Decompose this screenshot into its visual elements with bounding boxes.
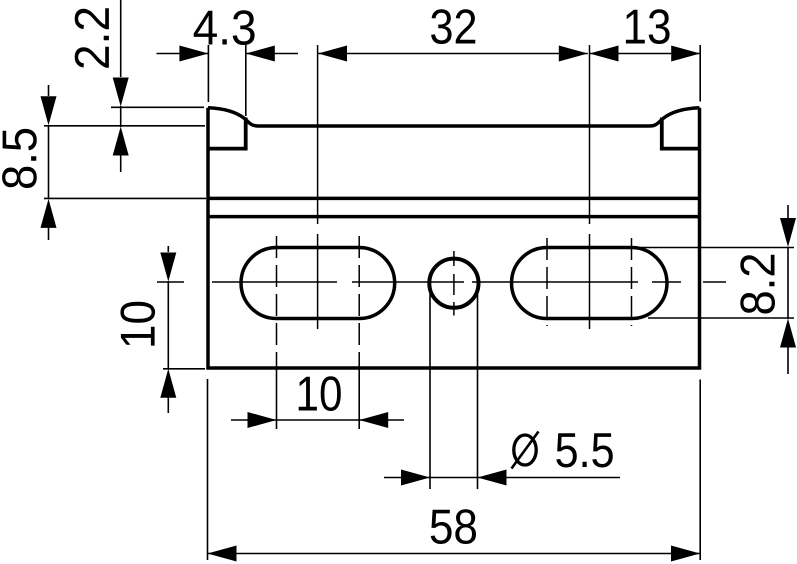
vertical center line of right slot / 32-13 extension xyxy=(589,45,591,329)
dimension 8.5 line and outside arrows xyxy=(48,85,50,96)
dimension 4.3 line and outside arrows xyxy=(157,53,209,55)
dimension 2.2 line and outside arrows xyxy=(120,0,122,77)
dimension text 10 bottom xyxy=(299,376,341,411)
dimension text 8.2 (rotated) xyxy=(740,255,775,314)
dimension 10 (bottom, slot centers) line and outside arrows xyxy=(231,419,359,421)
lower horizontal step line across part xyxy=(208,215,700,219)
dimension text 2.2 (rotated) xyxy=(75,8,109,67)
left slot (obround 10 x 8.2) xyxy=(241,248,395,319)
dimension text 13 xyxy=(626,9,670,44)
extension line tab top (2.2 upper ref) xyxy=(111,106,204,108)
dimension 10 (left) line and outside arrows xyxy=(167,246,169,252)
dimension text diameter symbol xyxy=(512,432,539,469)
extension line circle left (dia 5.5) xyxy=(429,294,431,489)
dimension text 58 xyxy=(431,509,476,544)
dimension text 10 left (rotated) xyxy=(120,302,155,346)
left tab hook inner edge xyxy=(209,118,246,149)
dimension 13 line and inside arrows xyxy=(590,53,701,55)
right slot (obround) xyxy=(512,248,667,319)
left slot arc-center dashed line (right) xyxy=(358,236,360,368)
extension line circle right (dia 5.5) xyxy=(477,294,479,489)
extension line surface level (2.2 lower / 8.5 upper ref) xyxy=(44,125,205,127)
vertical center line of circle xyxy=(453,251,455,316)
left slot arc-center dashed line (left) xyxy=(276,236,278,368)
dimension text 4.3 xyxy=(194,10,255,45)
extension line bottom edge (10 lower ref) xyxy=(163,368,205,370)
extension line 8.2 bottom xyxy=(648,317,794,319)
dimension 32 line and inside arrows xyxy=(318,53,588,55)
extension line 13 right xyxy=(699,45,701,102)
extension line step level (8.5 lower ref) xyxy=(44,197,206,199)
extension line 4.3 left xyxy=(207,45,209,102)
dimension text 8.5 (rotated) xyxy=(2,129,37,188)
extension line 4.3 right xyxy=(245,45,247,116)
part outline: top profile with DIN-rail tabs xyxy=(208,108,700,126)
center hole circle diameter 5.5 xyxy=(429,259,478,308)
dimension dia 5.5 line and outside arrows xyxy=(384,477,478,479)
dimension text 32 xyxy=(431,9,475,44)
right slot arc-center dashed line (right) xyxy=(631,238,633,326)
right tab hook inner edge xyxy=(662,118,699,149)
extension line 58 left xyxy=(207,379,209,560)
upper horizontal step line across part xyxy=(208,197,700,201)
part outline: left edge, bottom edge, right edge xyxy=(208,108,700,368)
vertical center line of left slot xyxy=(317,45,319,329)
dimension text 5.5 xyxy=(556,433,613,467)
dimension 8.2 line and outside arrows xyxy=(787,205,789,218)
dimension 58 line and inside arrows xyxy=(208,553,701,555)
horizontal center line through holes xyxy=(157,281,726,283)
extension line 58 right xyxy=(699,380,701,561)
right slot arc-center dashed line (left) xyxy=(546,238,548,326)
extension line 8.2 top xyxy=(635,247,794,249)
